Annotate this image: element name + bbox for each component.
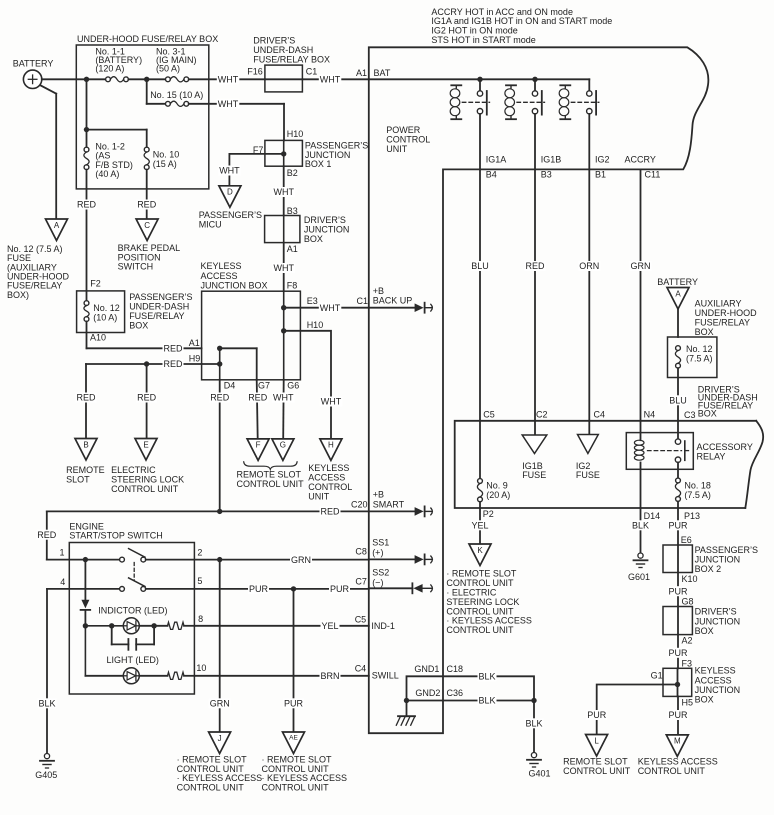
svg-text:BLU: BLU (669, 396, 687, 406)
wire (86, 322, 88, 349)
svg-text:GND1: GND1 (414, 664, 439, 674)
svg-text:ACCESSORY: ACCESSORY (697, 442, 753, 452)
wire RED to brake pedal switch (146, 170, 148, 219)
svg-text:SMART: SMART (373, 499, 405, 509)
connector H (320, 439, 342, 461)
connector J (209, 732, 231, 754)
svg-text:A1: A1 (287, 244, 298, 254)
svg-text:CONTROL UNIT: CONTROL UNIT (177, 783, 245, 793)
wire PUR G1 to L (597, 685, 678, 735)
wire BLU to C3 (677, 368, 679, 421)
svg-text:BATTERY: BATTERY (657, 277, 698, 287)
svg-text:SS1: SS1 (372, 538, 389, 548)
node H10/F7 (281, 151, 286, 156)
svg-text:C4: C4 (355, 664, 367, 674)
svg-text:BOX: BOX (695, 327, 714, 337)
svg-text:C1: C1 (306, 67, 318, 77)
connector K (469, 544, 491, 566)
svg-text:WHT: WHT (320, 303, 341, 313)
fuse No. 18 (7.5 A) (676, 478, 681, 483)
connector F (247, 439, 269, 461)
wire PUR P13 to E6 (677, 508, 679, 545)
svg-text:WHT: WHT (218, 99, 239, 109)
wire RED to fuse No.12 (86, 170, 88, 301)
wire inside DJB (283, 216, 285, 243)
svg-text:B: B (83, 440, 88, 449)
svg-text:G405: G405 (35, 770, 57, 780)
svg-text:BAT: BAT (374, 68, 391, 78)
svg-text:REMOTE SLOT: REMOTE SLOT (563, 757, 628, 767)
svg-text:(20 A): (20 A) (486, 490, 510, 500)
wire BRN pin 10 to C4 SWILL (194, 675, 368, 677)
svg-text:A: A (54, 221, 60, 230)
wire WHT to PCU BAT (302, 78, 368, 80)
wire to IG1B fuse (534, 421, 536, 435)
wire GND2 BLK (407, 700, 535, 702)
svg-text:CONTROL UNIT: CONTROL UNIT (237, 479, 305, 489)
svg-text:(−): (−) (372, 577, 383, 587)
svg-text:BLU: BLU (471, 261, 489, 271)
fuse No. 1-1 (BATTERY) (120 A) (106, 77, 111, 82)
svg-text:IG1B: IG1B (541, 155, 562, 165)
svg-text:AUXILIARY: AUXILIARY (695, 298, 742, 308)
connector E (135, 439, 157, 461)
IG2 fuse symbol (578, 435, 599, 454)
wire color WHT (217, 74, 240, 84)
wire GND1 BLK (407, 676, 535, 701)
wire BLK to G401 (533, 701, 535, 753)
svg-text:WHT: WHT (273, 393, 294, 403)
node cap right (151, 623, 156, 628)
svg-text:J: J (218, 734, 222, 743)
svg-text:B4: B4 (486, 169, 497, 179)
svg-text:ACCESS: ACCESS (695, 675, 732, 685)
wire BLU B4-C5 (479, 169, 481, 420)
svg-text:WHT: WHT (320, 75, 341, 85)
connector M (666, 735, 688, 757)
svg-text:C2: C2 (536, 409, 548, 419)
connector G (272, 439, 294, 461)
connector A (46, 219, 68, 241)
driver's junction box (265, 216, 300, 243)
svg-text:D: D (227, 188, 233, 197)
svg-text:UNIT: UNIT (308, 491, 329, 501)
svg-text:(40 A): (40 A) (95, 169, 119, 179)
node E3 (281, 305, 286, 310)
ground G405 (44, 754, 49, 759)
svg-text:SWITCH: SWITCH (118, 262, 154, 272)
svg-text:B3: B3 (541, 169, 552, 179)
svg-text:G6: G6 (287, 381, 299, 391)
node GND2 (404, 698, 409, 703)
svg-text:IG1A: IG1A (486, 155, 507, 165)
svg-text:G601: G601 (628, 572, 650, 582)
svg-text:UNIT: UNIT (386, 144, 407, 154)
svg-text:C1: C1 (357, 296, 369, 306)
svg-text:C20: C20 (351, 500, 368, 510)
svg-text:BOX: BOX (695, 695, 714, 705)
svg-text:BOX): BOX) (7, 290, 29, 300)
svg-text:G7: G7 (258, 381, 270, 391)
svg-text:No. 12: No. 12 (93, 303, 120, 313)
wire N4 to relay coil (640, 421, 642, 440)
svg-text:(50 A): (50 A) (156, 63, 180, 73)
wire ORN B1-C4 (588, 169, 590, 420)
svg-text:E3: E3 (307, 296, 318, 306)
svg-text:CONTROL UNIT: CONTROL UNIT (111, 484, 179, 494)
wire battery diagonal down (40, 85, 56, 93)
svg-text:GND2: GND2 (415, 688, 440, 698)
wire GRN to J (219, 560, 221, 732)
svg-text:WHT: WHT (218, 75, 239, 85)
svg-text:A1: A1 (189, 338, 200, 348)
svg-text:STEERING LOCK: STEERING LOCK (111, 475, 184, 485)
wire GRN to C8 (220, 559, 369, 561)
svg-text:CONTROL UNIT: CONTROL UNIT (446, 625, 514, 635)
svg-text:RED: RED (164, 359, 184, 369)
svg-text:CONTROL UNIT: CONTROL UNIT (638, 766, 706, 776)
svg-text:JUNCTION: JUNCTION (695, 685, 741, 695)
svg-text:D14: D14 (644, 511, 661, 521)
svg-text:BATTERY: BATTERY (13, 58, 54, 68)
connector L (586, 735, 608, 757)
svg-text:RED: RED (137, 393, 157, 403)
auxiliary under-hood fuse/relay box (668, 337, 717, 378)
svg-text:(7.5 A): (7.5 A) (684, 490, 711, 500)
svg-text:No. 15 (10 A): No. 15 (10 A) (150, 90, 203, 100)
wire F7 (229, 153, 283, 155)
svg-text:B3: B3 (287, 206, 298, 216)
wire RED D4 down (219, 380, 221, 512)
wire WHT A1-F8 (283, 243, 285, 292)
passenger's under-dash fuse/relay box (77, 291, 125, 333)
svg-text:INDICTOR (LED): INDICTOR (LED) (98, 605, 167, 615)
wire WHT H10 to connector H (284, 331, 331, 439)
svg-text:PASSENGER’S: PASSENGER’S (695, 545, 758, 555)
svg-text:K: K (477, 546, 483, 555)
wire BLK D14 to G601 (640, 508, 642, 553)
wire GRN C11-N4 (640, 169, 642, 420)
wire PUR A2-F3 (677, 635, 679, 669)
svg-text:A1: A1 (356, 68, 367, 78)
svg-text:RED: RED (248, 393, 268, 403)
IG1B fuse symbol (522, 435, 547, 454)
wire WHT to passenger MICU (228, 154, 230, 186)
diode D in switch (84, 560, 86, 600)
wire WHT G6 to G (282, 380, 285, 439)
wire BAT bus inside PCU (369, 78, 590, 80)
svg-text:H10: H10 (287, 129, 304, 139)
keyless access junction box (202, 291, 301, 380)
under-hood fuse/relay box (76, 45, 209, 189)
svg-text:F7: F7 (253, 145, 264, 155)
connector D (219, 186, 241, 208)
svg-text:FUSE/RELAY: FUSE/RELAY (695, 317, 750, 327)
svg-text:UNDER-DASH: UNDER-DASH (129, 301, 189, 311)
svg-text:GRN: GRN (631, 261, 651, 271)
svg-text:G: G (280, 441, 286, 450)
svg-text:KEYLESS ACCESS: KEYLESS ACCESS (638, 757, 718, 767)
wire RED to B (85, 364, 87, 439)
wire PUR H5 to M (677, 696, 679, 735)
svg-text:UNDER-HOOD FUSE/RELAY BOX: UNDER-HOOD FUSE/RELAY BOX (77, 34, 218, 44)
wire BLK pin4 to G405 (46, 589, 48, 754)
switch blade (129, 578, 145, 587)
fuse No. 1-2 (AS F/B STD) (40 A) (84, 147, 89, 152)
svg-text:G8: G8 (682, 597, 694, 607)
svg-text:KEYLESS: KEYLESS (695, 666, 736, 676)
svg-text:RED: RED (526, 261, 546, 271)
connector C (136, 219, 158, 241)
node battery bus (84, 77, 89, 82)
svg-text:B1: B1 (595, 169, 606, 179)
wire F8 to G6 (283, 291, 285, 380)
svg-text:5: 5 (197, 576, 202, 586)
svg-text:JUNCTION BOX: JUNCTION BOX (201, 281, 268, 291)
svg-text:F3: F3 (682, 658, 693, 668)
svg-text:BOX: BOX (304, 234, 323, 244)
node pin1 (83, 557, 88, 562)
svg-text:H9: H9 (189, 354, 201, 364)
svg-text:F2: F2 (90, 278, 101, 288)
svg-text:PUR: PUR (284, 699, 304, 709)
resistor R light (168, 672, 185, 679)
wire inside PJB1 (283, 140, 285, 166)
wire YEL P2 to K (479, 508, 481, 544)
svg-text:E6: E6 (681, 535, 692, 545)
svg-text:1: 1 (60, 548, 65, 558)
svg-text:REMOTE: REMOTE (66, 465, 105, 475)
svg-text:+B: +B (373, 490, 384, 500)
brace remote slot control unit (244, 462, 297, 470)
svg-text:SWILL: SWILL (372, 671, 399, 681)
svg-text:KEYLESS: KEYLESS (308, 463, 349, 473)
svg-text:F8: F8 (287, 281, 298, 291)
ground G601 (638, 553, 643, 558)
wire RED B3-C2 (534, 169, 536, 420)
relay contact bar (684, 441, 686, 460)
fuse No. 12 (7.5 A) (676, 346, 681, 351)
svg-text:BOX: BOX (698, 409, 717, 419)
svg-text:A10: A10 (90, 332, 106, 342)
accessory relay (626, 433, 693, 470)
svg-text:P2: P2 (483, 509, 494, 519)
svg-text:C5: C5 (483, 409, 495, 419)
svg-text:ACCESS: ACCESS (308, 472, 345, 482)
svg-text:BLK: BLK (39, 699, 56, 709)
svg-text:WHT: WHT (219, 166, 240, 176)
node A1/D4 (217, 346, 222, 351)
fuse No. 12 (10 A) (84, 301, 89, 306)
relay 3 in PCU (560, 84, 570, 86)
connector B (75, 439, 97, 461)
resistor R ind (168, 622, 185, 629)
svg-text:H5: H5 (682, 697, 694, 707)
svg-text:PUR: PUR (249, 584, 269, 594)
svg-text:WHT: WHT (274, 263, 295, 273)
svg-text:C7: C7 (355, 577, 367, 587)
svg-text:4: 4 (60, 577, 65, 587)
svg-text:MICU: MICU (199, 219, 222, 229)
svg-text:BLK: BLK (632, 521, 649, 531)
engine start/stop switch box (69, 543, 194, 695)
svg-text:BLK: BLK (479, 672, 496, 682)
svg-text:IND-1: IND-1 (371, 621, 395, 631)
svg-text:ORN: ORN (579, 261, 599, 271)
driver's under-dash fuse/relay box F16-C1 (265, 65, 303, 92)
svg-text:PASSENGER’S: PASSENGER’S (199, 210, 262, 220)
wire (86, 79, 88, 129)
wire RED down to pin 1 (46, 511, 48, 559)
svg-text:UNDER-HOOD: UNDER-HOOD (695, 308, 757, 318)
wire WHT from fuse 15 (189, 103, 284, 105)
svg-text:H: H (328, 441, 334, 450)
svg-text:F: F (256, 441, 261, 450)
svg-text:+B: +B (373, 286, 384, 296)
LED indicator (123, 618, 139, 634)
capacitor across LED (111, 626, 113, 645)
svg-text:C5: C5 (355, 615, 367, 625)
fuse No. 3-1 (IG MAIN) (50 A) (166, 77, 171, 82)
svg-text:D4: D4 (224, 381, 236, 391)
wire (146, 130, 148, 148)
wire pin 2 (146, 559, 220, 561)
wire (85, 625, 123, 627)
svg-text:RED: RED (137, 200, 157, 210)
svg-text:(15 A): (15 A) (153, 159, 177, 169)
svg-text:ELECTRIC: ELECTRIC (111, 465, 156, 475)
wire RED H9 (86, 363, 202, 365)
svg-text:CONTROL: CONTROL (386, 135, 430, 145)
wire down to connector A (55, 94, 57, 219)
svg-text:RED: RED (210, 393, 230, 403)
svg-text:STS HOT in START mode: STS HOT in START mode (431, 35, 535, 45)
svg-text:IG2: IG2 (595, 155, 610, 165)
connector A (battery feed) (667, 288, 689, 310)
fuse No. 9 (20 A) (478, 479, 483, 484)
svg-text:RED: RED (321, 507, 341, 517)
wire to fuse No.18 (677, 462, 679, 478)
wire to fuse No.9 (479, 421, 481, 479)
svg-text:H10: H10 (307, 320, 324, 330)
svg-text:8: 8 (198, 614, 203, 624)
svg-text:BOX: BOX (129, 320, 148, 330)
wire WHT to F16 (189, 78, 265, 80)
svg-text:A: A (675, 289, 681, 298)
wire D4 inside box (219, 348, 221, 380)
svg-text:C8: C8 (355, 547, 367, 557)
svg-text:PUR: PUR (669, 586, 689, 596)
svg-text:K10: K10 (682, 574, 698, 584)
svg-text:FUSE/RELAY BOX: FUSE/RELAY BOX (253, 55, 330, 65)
svg-text:G1: G1 (651, 670, 663, 680)
LED light (123, 668, 139, 684)
wire down to H10 PJB1 (283, 104, 285, 141)
driver's under-dash fuse/relay box outline (455, 421, 757, 508)
svg-text:JUNCTION: JUNCTION (304, 225, 350, 235)
svg-text:(120 A): (120 A) (95, 63, 124, 73)
node cap left (109, 623, 114, 628)
svg-text:PASSENGER’S: PASSENGER’S (129, 292, 192, 302)
svg-text:PUR: PUR (669, 521, 689, 531)
fuse No. 15 (10 A) (166, 101, 171, 106)
svg-text:KEYLESS: KEYLESS (201, 261, 242, 271)
power control unit U1 outline (369, 47, 709, 733)
svg-text:CONTROL: CONTROL (308, 482, 352, 492)
wire relay coil to D14 (640, 463, 642, 509)
wire RED +B SMART (47, 510, 220, 512)
node D4/+B SMART (217, 509, 222, 514)
svg-text:C18: C18 (447, 664, 464, 674)
svg-text:A2: A2 (682, 636, 693, 646)
wire to fuse No.15 (146, 79, 148, 104)
svg-text:WHT: WHT (274, 187, 295, 197)
wire (128, 78, 165, 80)
svg-text:BLK: BLK (479, 696, 496, 706)
svg-text:START/STOP SWITCH: START/STOP SWITCH (69, 530, 162, 540)
wire C3 to relay contact (677, 421, 679, 439)
wire RED to E (146, 364, 148, 439)
svg-text:SLOT: SLOT (66, 475, 90, 485)
wire WHT B2-B3 (283, 166, 285, 215)
svg-text:BACK UP: BACK UP (373, 296, 413, 306)
svg-text:F16: F16 (247, 67, 263, 77)
svg-text:POWER: POWER (386, 125, 421, 135)
svg-text:C11: C11 (645, 169, 661, 179)
wire RED G7 to F (257, 380, 258, 439)
wire YEL pin 8 to C5 IND-1 (194, 625, 368, 627)
svg-text:C36: C36 (447, 688, 464, 698)
svg-text:G401: G401 (529, 769, 551, 779)
node pin2/GRN (217, 557, 222, 562)
svg-text:10: 10 (196, 663, 206, 673)
svg-text:ACCESS: ACCESS (201, 271, 238, 281)
node H10 (281, 328, 286, 333)
svg-text:RED: RED (164, 344, 184, 354)
svg-text:ACCRY: ACCRY (625, 155, 656, 165)
svg-text:SS2: SS2 (372, 568, 389, 578)
wire battery to fuse No.1-1 (42, 78, 107, 80)
svg-text:WHT: WHT (321, 397, 342, 407)
svg-text:RED: RED (77, 393, 97, 403)
wire A1 to G7 (220, 347, 257, 349)
svg-text:N4: N4 (644, 410, 656, 420)
svg-text:C4: C4 (594, 410, 606, 420)
node (83, 623, 88, 628)
svg-text:B2: B2 (287, 168, 298, 178)
svg-text:PUR: PUR (587, 710, 607, 720)
wire WHT E3 to C1 +B BACK UP (284, 307, 369, 309)
wire (87, 129, 147, 131)
svg-text:PUR: PUR (669, 710, 689, 720)
svg-text:BOX 2: BOX 2 (695, 564, 722, 574)
node BLK join (531, 698, 536, 703)
wire to IG2 fuse (588, 421, 590, 435)
svg-text:2: 2 (197, 548, 202, 558)
svg-text:FUSE: FUSE (522, 470, 546, 480)
svg-text:JUNCTION: JUNCTION (695, 555, 741, 565)
svg-text:BOX 1: BOX 1 (305, 159, 332, 169)
svg-text:REMOTE SLOT: REMOTE SLOT (237, 469, 302, 479)
svg-text:YEL: YEL (472, 521, 489, 531)
svg-text:PUR: PUR (330, 584, 350, 594)
svg-text:(7.5 A): (7.5 A) (686, 354, 713, 364)
svg-text:L: L (594, 736, 599, 745)
switch blade (129, 549, 145, 558)
svg-text:CONTROL UNIT: CONTROL UNIT (563, 766, 631, 776)
connector AE (283, 732, 305, 754)
svg-text:BRN: BRN (321, 671, 340, 681)
